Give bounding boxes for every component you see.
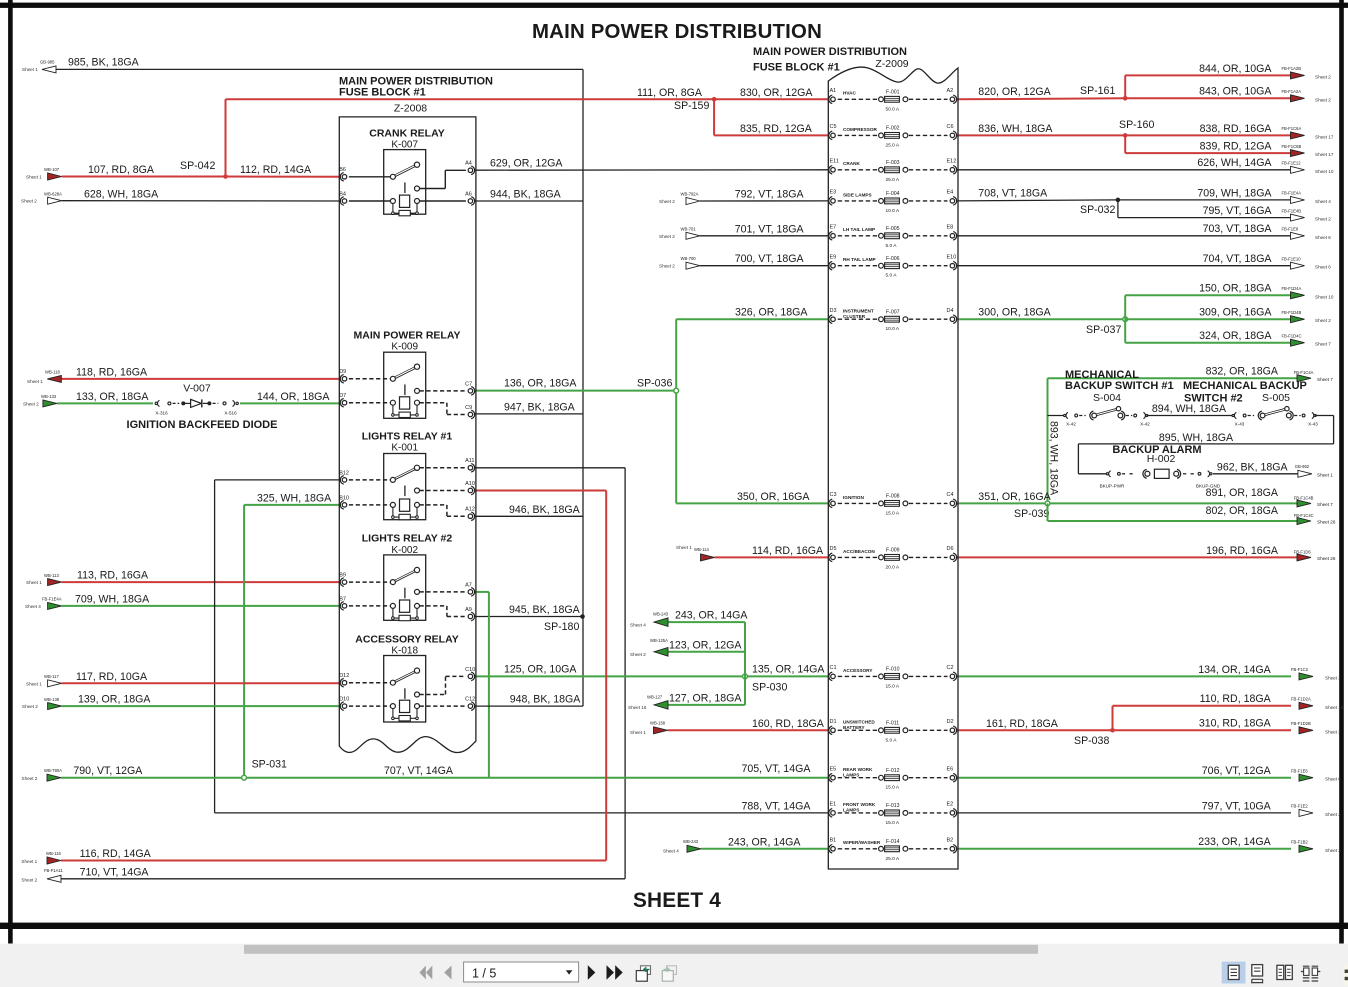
svg-text:E2: E2 — [947, 802, 954, 808]
svg-text:117, RD, 10GA: 117, RD, 10GA — [76, 671, 148, 683]
wire 134, OR, 14GA — [957, 664, 1291, 677]
svg-text:709, WH, 18GA: 709, WH, 18GA — [75, 593, 150, 605]
sheet arrow FB-F1A2A Sheet 2 — [1282, 89, 1332, 102]
svg-text:Z-2008: Z-2008 — [394, 103, 427, 115]
pin A10 — [468, 488, 473, 493]
pin B9 — [342, 580, 347, 585]
pin C9 — [468, 412, 473, 417]
svg-text:SP-039: SP-039 — [1014, 508, 1049, 520]
pin D7 — [342, 400, 347, 405]
svg-text:Sheet 10: Sheet 10 — [1315, 169, 1334, 174]
svg-text:F-009: F-009 — [886, 548, 900, 554]
wire 196, RD, 16GA — [957, 545, 1297, 558]
svg-text:E5: E5 — [830, 767, 837, 773]
page border frame bottom — [0, 923, 1348, 929]
svg-text:FB-F1C4C: FB-F1C4C — [1294, 513, 1314, 518]
wire A11 net right side — [475, 467, 625, 469]
svg-text:ACC/BEACON: ACC/BEACON — [843, 549, 875, 554]
wire 701, VT, 18GA — [700, 223, 829, 236]
pin B2 — [950, 847, 955, 852]
svg-text:A12: A12 — [465, 507, 475, 513]
wire 820, OR, 12GA — [957, 86, 1126, 100]
pin B10 — [342, 503, 347, 508]
svg-text:C1: C1 — [830, 665, 837, 671]
toolbar previous-view icon — [636, 966, 650, 981]
svg-text:Sheet 1: Sheet 1 — [630, 730, 646, 735]
svg-text:K-018: K-018 — [391, 646, 418, 657]
svg-text:LAMPS: LAMPS — [843, 773, 859, 778]
pin B1 — [831, 847, 836, 852]
pin E5 — [831, 775, 836, 780]
wire 144, OR, 18GA — [240, 391, 340, 403]
svg-text:FB-F1E4A: FB-F1E4A — [1282, 191, 1302, 196]
svg-text:10.0 A: 10.0 A — [886, 208, 900, 214]
sheet arrow FB-F1A11 Sheet 2 — [21, 868, 63, 882]
pin A4 — [468, 168, 473, 173]
svg-text:133, OR, 18GA: 133, OR, 18GA — [76, 391, 149, 403]
wire 844, OR, 10GA — [1125, 63, 1291, 99]
svg-text:710, VT, 14GA: 710, VT, 14GA — [80, 866, 150, 878]
svg-text:116, RD, 14GA: 116, RD, 14GA — [80, 848, 152, 860]
backup alarm H-002 — [1100, 444, 1221, 489]
wire 112, RD, 14GA — [226, 164, 342, 177]
svg-text:FB-F1D4C: FB-F1D4C — [1282, 334, 1302, 339]
svg-text:351, OR, 16GA: 351, OR, 16GA — [978, 491, 1051, 503]
svg-text:Sheet 2: Sheet 2 — [1325, 729, 1341, 734]
svg-text:CLUSTER: CLUSTER — [843, 314, 866, 319]
svg-text:160, RD, 18GA: 160, RD, 18GA — [752, 718, 825, 730]
page border frame right — [1339, 0, 1344, 944]
svg-text:WB-113: WB-113 — [44, 573, 59, 578]
wire 985, BK, 18GA — [56, 57, 584, 70]
svg-text:123, OR, 12GA: 123, OR, 12GA — [669, 639, 742, 651]
svg-text:C5: C5 — [830, 124, 837, 130]
svg-text:MAIN POWER DISTRIBUTION: MAIN POWER DISTRIBUTION — [753, 46, 907, 58]
svg-text:V-007: V-007 — [183, 382, 211, 394]
svg-text:20.0 A: 20.0 A — [886, 564, 900, 570]
svg-text:SP-031: SP-031 — [252, 758, 287, 770]
fuse F-013 FRONT WORK LAMPS — [829, 802, 957, 826]
pin D12 — [342, 680, 347, 685]
pin C2 — [950, 674, 955, 679]
sheet arrow WB-113 Sheet 1 — [26, 573, 62, 586]
svg-text:946, BK, 18GA: 946, BK, 18GA — [509, 504, 581, 516]
label Z-2009 block title — [753, 46, 909, 74]
svg-text:243, OR, 14GA: 243, OR, 14GA — [728, 836, 801, 848]
wire 350, OR, 16GA — [676, 491, 829, 503]
sheet arrow FB-F1E12 Sheet 10 — [1282, 161, 1334, 174]
svg-text:D3: D3 — [830, 308, 837, 314]
fuse F-006 RH TAIL LAMP — [829, 255, 957, 279]
wire 843, OR, 10GA — [1125, 86, 1291, 99]
pin A6 — [468, 199, 473, 204]
layout icon two pages — [1277, 965, 1292, 979]
wire 704, VT, 18GA — [957, 253, 1292, 266]
wire 838, RD, 16GA — [1125, 123, 1291, 136]
svg-text:FB-F1E2: FB-F1E2 — [1291, 804, 1308, 809]
svg-text:FB-F1E6: FB-F1E6 — [1291, 769, 1308, 774]
svg-text:C12: C12 — [465, 697, 475, 703]
pin E3 — [831, 199, 836, 204]
pin E7 — [831, 234, 836, 239]
svg-text:Sheet 2: Sheet 2 — [1315, 217, 1331, 222]
svg-text:A2: A2 — [947, 88, 954, 94]
svg-text:5.0 A: 5.0 A — [886, 243, 898, 249]
toolbar next-view icon (disabled) — [662, 966, 676, 981]
svg-text:SP-036: SP-036 — [637, 378, 672, 390]
toolbar last-page button — [607, 965, 623, 979]
wire 325, WH, 18GA — [244, 492, 341, 777]
svg-text:E12: E12 — [947, 159, 957, 165]
svg-text:FB-F1D2A: FB-F1D2A — [1291, 697, 1311, 702]
wire 945, BK, 18GA — [475, 604, 583, 617]
svg-text:WB-139: WB-139 — [44, 697, 60, 702]
svg-text:F-007: F-007 — [886, 309, 900, 315]
svg-text:985, BK, 18GA: 985, BK, 18GA — [68, 57, 140, 69]
pin C6 — [950, 133, 955, 138]
svg-text:Sheet 7: Sheet 7 — [1317, 502, 1333, 507]
toolbar previous-page button (disabled) — [444, 966, 451, 980]
label Z-2008 block title — [339, 76, 493, 115]
svg-text:797, VT, 10GA: 797, VT, 10GA — [1202, 800, 1272, 812]
svg-text:706, VT, 12GA: 706, VT, 12GA — [1202, 765, 1272, 777]
svg-text:Sheet 1: Sheet 1 — [26, 175, 42, 180]
svg-text:ACCESSORY RELAY: ACCESSORY RELAY — [355, 633, 458, 645]
wire 324, OR, 18GA — [1125, 319, 1291, 343]
svg-text:114, RD, 16GA: 114, RD, 16GA — [752, 545, 824, 557]
svg-text:A10: A10 — [465, 481, 475, 487]
svg-text:C2: C2 — [947, 665, 954, 671]
pin D9 — [342, 377, 347, 382]
pin A1 — [831, 97, 836, 102]
splice SP-036 vertical (OR) — [637, 319, 679, 503]
layout icon single page (active) — [1222, 962, 1246, 984]
svg-text:SP-042: SP-042 — [180, 160, 215, 172]
svg-text:ACCESSORY: ACCESSORY — [843, 668, 873, 673]
sheet arrow FB-F1D4A Sheet 10 — [1282, 286, 1334, 299]
svg-text:SP-032: SP-032 — [1080, 204, 1115, 216]
sheet arrow WB-243 Sheet 4 — [630, 612, 669, 628]
svg-text:WB-125A: WB-125A — [650, 638, 668, 643]
svg-text:Sheet 1: Sheet 1 — [676, 545, 692, 550]
diode V-007 IGNITION BACKFEED DIODE — [155, 382, 238, 415]
svg-text:Sheet 4: Sheet 4 — [1315, 199, 1331, 204]
svg-text:704, VT, 18GA: 704, VT, 18GA — [1203, 253, 1273, 265]
sheet arrow WB-139 Sheet 2 — [22, 697, 62, 710]
wire 309, OR, 16GA — [1125, 307, 1291, 320]
fuse block Z-2009 outline — [828, 67, 958, 869]
svg-text:BKUP-PWR: BKUP-PWR — [1100, 484, 1125, 489]
svg-text:WB-790A: WB-790A — [44, 768, 62, 773]
svg-text:WB-118: WB-118 — [45, 370, 60, 375]
svg-text:FB-F1E8: FB-F1E8 — [1282, 227, 1299, 232]
pin E11 — [831, 168, 836, 173]
svg-text:628, WH, 18GA: 628, WH, 18GA — [84, 189, 159, 201]
sheet arrow WB-158 Sheet 1 — [630, 721, 668, 735]
layout icon continuous — [1252, 965, 1263, 984]
svg-text:CRANK RELAY: CRANK RELAY — [369, 127, 444, 139]
sheet arrow FB-F1C4C Sheet 26 — [1294, 513, 1336, 525]
sheet arrow WB-127 Sheet 16 — [628, 694, 668, 710]
splice SP-159 — [674, 97, 716, 112]
svg-text:150, OR, 18GA: 150, OR, 18GA — [1199, 283, 1272, 295]
svg-text:C7: C7 — [465, 381, 472, 387]
pin E6 — [950, 775, 955, 780]
svg-text:E8: E8 — [947, 225, 954, 231]
wire 114, RD, 16GA — [715, 545, 830, 557]
pin E10 — [950, 263, 955, 268]
fuse F-014 WIPER/WASHER — [829, 838, 957, 862]
svg-text:C4: C4 — [947, 492, 954, 498]
sheet arrow GB-962 Sheet 1 — [1295, 464, 1334, 477]
svg-text:15.0 A: 15.0 A — [886, 683, 900, 689]
svg-text:SWITCH #2: SWITCH #2 — [1184, 393, 1243, 405]
svg-text:5.0 A: 5.0 A — [886, 737, 898, 743]
splice SP-039 — [1014, 501, 1050, 520]
wire 795, VT, 16GA — [1118, 200, 1292, 218]
splice SP-160 — [1119, 119, 1154, 138]
svg-text:SP-180: SP-180 — [544, 621, 579, 633]
ground bus wire (BK) — [582, 69, 584, 706]
svg-text:B4: B4 — [339, 191, 346, 197]
svg-text:795, VT, 16GA: 795, VT, 16GA — [1203, 205, 1273, 217]
wire 351, OR, 16GA / 891, OR, 18GA — [957, 487, 1297, 503]
relay K-009 MAIN POWER RELAY — [339, 329, 474, 418]
svg-text:25.0 A: 25.0 A — [886, 856, 900, 862]
svg-text:BACKUP SWITCH #1: BACKUP SWITCH #1 — [1065, 380, 1174, 392]
svg-text:F-003: F-003 — [886, 160, 900, 166]
sheet arrow FB-F1C4A Sheet 7 — [1294, 370, 1334, 382]
svg-text:WB-628A: WB-628A — [44, 191, 62, 196]
fuse F-007 INSTRUMENT CLUSTER — [829, 308, 957, 332]
svg-text:X-43: X-43 — [1235, 422, 1245, 427]
sheet arrow WB-114 Sheet 1 — [676, 545, 715, 561]
svg-text:944, BK, 18GA: 944, BK, 18GA — [490, 189, 562, 201]
svg-text:15.0 A: 15.0 A — [886, 510, 900, 516]
svg-text:FB-F1B2: FB-F1B2 — [1291, 840, 1308, 845]
wire 708, VT, 18GA — [957, 187, 1118, 201]
svg-text:WB-116: WB-116 — [46, 851, 61, 856]
svg-text:139, OR, 18GA: 139, OR, 18GA — [78, 694, 151, 706]
layout icon two pages continuous — [1301, 966, 1320, 981]
wire 626, WH, 14GA — [957, 157, 1292, 170]
svg-text:K-001: K-001 — [391, 443, 418, 454]
svg-text:FB-F1E4A: FB-F1E4A — [42, 597, 62, 602]
splice SP-031 — [242, 758, 287, 780]
sheet arrow FB-F1A2B Sheet 2 — [1282, 66, 1332, 79]
svg-text:BATTERY: BATTERY — [843, 725, 865, 730]
svg-text:Sheet 17: Sheet 17 — [1315, 152, 1334, 157]
svg-text:GB-985: GB-985 — [40, 60, 55, 65]
svg-text:LH TAIL LAMP: LH TAIL LAMP — [843, 227, 875, 232]
wire 233, OR, 14GA — [957, 836, 1291, 849]
svg-text:E3: E3 — [830, 190, 837, 196]
pin A7 — [468, 590, 473, 595]
wire 110, RD, 18GA — [1113, 693, 1292, 730]
wire 703, VT, 18GA — [957, 223, 1292, 236]
fuse F-001 HVAC — [829, 88, 957, 112]
pin B4 — [342, 199, 347, 204]
svg-text:50.0 A: 50.0 A — [886, 106, 900, 112]
wire 127, OR, 18GA — [667, 676, 745, 705]
svg-text:D12: D12 — [339, 673, 349, 679]
svg-text:A4: A4 — [465, 161, 472, 167]
wire 832, OR, 18GA — [1048, 366, 1298, 379]
svg-text:Sheet 1: Sheet 1 — [1317, 472, 1333, 477]
svg-text:A9: A9 — [465, 607, 472, 613]
svg-text:F-004: F-004 — [886, 191, 900, 197]
fuse F-005 LH TAIL LAMP — [829, 225, 957, 249]
svg-text:Sheet 2: Sheet 2 — [1325, 812, 1341, 817]
wire 944, BK, 18GA — [475, 189, 583, 202]
wire 788, VT, 14GA — [215, 800, 829, 813]
svg-text:Sheet 6: Sheet 6 — [1315, 235, 1331, 240]
wire 946, BK, 18GA — [475, 504, 583, 517]
svg-text:GB-962: GB-962 — [1295, 464, 1310, 469]
svg-text:B7: B7 — [339, 596, 346, 602]
svg-text:WB-127: WB-127 — [647, 694, 663, 699]
svg-text:Sheet 2: Sheet 2 — [1315, 74, 1331, 79]
svg-text:COMPRESSOR: COMPRESSOR — [843, 127, 877, 132]
svg-text:196, RD, 16GA: 196, RD, 16GA — [1206, 545, 1279, 557]
wire 893, WH, 18GA (vertical) — [1048, 378, 1060, 521]
svg-text:D1: D1 — [830, 719, 837, 725]
svg-text:707, VT, 14GA: 707, VT, 14GA — [384, 765, 454, 777]
splice SP-042 — [180, 160, 228, 179]
svg-text:SP-161: SP-161 — [1080, 85, 1115, 97]
svg-text:Sheet 2: Sheet 2 — [1325, 848, 1341, 853]
sheet arrow WB-133 Sheet 2 — [23, 394, 57, 407]
toolbar first-page button (disabled) — [420, 966, 433, 980]
pin D5 — [831, 555, 836, 560]
wire 709, WH, 18GA (left) — [62, 593, 341, 606]
svg-text:144, OR, 18GA: 144, OR, 18GA — [257, 391, 330, 403]
svg-text:C6: C6 — [947, 124, 954, 130]
svg-text:WB-114: WB-114 — [694, 547, 709, 552]
pin C7 — [468, 389, 473, 394]
svg-text:Sheet 1: Sheet 1 — [26, 681, 42, 686]
pin C12 — [468, 704, 473, 709]
svg-text:350, OR, 16GA: 350, OR, 16GA — [737, 491, 810, 503]
svg-text:118, RD, 16GA: 118, RD, 16GA — [76, 367, 148, 379]
sheet arrow WB-116 Sheet 1 — [21, 851, 61, 864]
svg-text:1 / 5: 1 / 5 — [472, 966, 496, 980]
svg-text:HVAC: HVAC — [843, 91, 857, 96]
sheet arrow WB-107 Sheet 1 — [26, 167, 62, 180]
pin B6 — [342, 175, 347, 180]
relay K-007 CRANK RELAY — [339, 127, 474, 215]
svg-text:Sheet 2: Sheet 2 — [659, 199, 675, 204]
svg-text:S-004: S-004 — [1093, 392, 1121, 404]
svg-text:WB-700: WB-700 — [681, 256, 697, 261]
svg-text:Sheet 2: Sheet 2 — [22, 776, 38, 781]
svg-text:894, WH, 18GA: 894, WH, 18GA — [1152, 403, 1227, 415]
svg-text:Sheet 1: Sheet 1 — [27, 379, 43, 384]
svg-text:INSTRUMENT: INSTRUMENT — [843, 309, 874, 314]
svg-text:107, RD, 8GA: 107, RD, 8GA — [88, 164, 155, 176]
svg-text:WB-792A: WB-792A — [681, 192, 699, 197]
pin C4 — [950, 501, 955, 506]
svg-text:FB-F1C6A: FB-F1C6A — [1282, 126, 1302, 131]
sheet arrow FB-F1B2 Sheet 2 — [1291, 840, 1341, 853]
svg-text:FB-F1A2A: FB-F1A2A — [1282, 89, 1302, 94]
svg-text:REAR WORK: REAR WORK — [843, 767, 873, 772]
svg-text:836, WH, 18GA: 836, WH, 18GA — [978, 123, 1053, 135]
svg-text:Sheet 2: Sheet 2 — [659, 264, 675, 269]
svg-text:626, WH, 14GA: 626, WH, 14GA — [1197, 157, 1272, 169]
wire 894, WH, 18GA — [1147, 403, 1233, 415]
svg-text:IGNITION: IGNITION — [843, 495, 864, 500]
svg-text:E6: E6 — [947, 767, 954, 773]
svg-text:SIDE LAMPS: SIDE LAMPS — [843, 192, 872, 197]
relay K-001 LIGHTS RELAY #1 — [339, 431, 475, 521]
svg-text:F-012: F-012 — [886, 768, 900, 774]
svg-text:947, BK, 18GA: 947, BK, 18GA — [504, 401, 576, 413]
svg-text:Sheet 4: Sheet 4 — [663, 849, 679, 854]
svg-text:B10: B10 — [339, 495, 349, 501]
svg-text:SP-159: SP-159 — [674, 100, 709, 112]
svg-text:K-002: K-002 — [391, 545, 418, 556]
svg-text:110, RD, 18GA: 110, RD, 18GA — [1200, 693, 1272, 705]
partial icon at right edge — [1344, 965, 1348, 986]
pin C10 — [468, 674, 473, 679]
svg-text:D4: D4 — [947, 308, 954, 314]
svg-text:FB-F1A2B: FB-F1A2B — [1282, 66, 1302, 71]
svg-text:Sheet 6: Sheet 6 — [1325, 777, 1341, 782]
svg-text:843, OR, 10GA: 843, OR, 10GA — [1199, 86, 1272, 98]
sheet arrow WB-118 Sheet 1 — [27, 370, 61, 384]
svg-text:CRANK: CRANK — [843, 161, 861, 166]
svg-text:701, VT, 18GA: 701, VT, 18GA — [735, 223, 805, 235]
svg-text:WB-133: WB-133 — [41, 394, 57, 399]
svg-text:Sheet 2: Sheet 2 — [1325, 675, 1341, 680]
sheet arrow FB-F1D4B Sheet 2 — [1282, 310, 1332, 323]
svg-text:Sheet 4: Sheet 4 — [25, 604, 41, 609]
svg-text:D5: D5 — [830, 546, 837, 552]
svg-text:D9: D9 — [339, 369, 346, 375]
fuse F-009 ACC/BEACON — [829, 546, 957, 570]
sheet arrow WB-243 Sheet 4 (wiper) — [663, 839, 701, 853]
svg-text:F-011: F-011 — [886, 721, 899, 727]
pin D6 — [950, 555, 955, 560]
pin A2 — [950, 97, 955, 102]
pin D3 — [831, 317, 836, 322]
fuse F-010 ACCESSORY — [829, 665, 957, 689]
pin D10 — [342, 704, 347, 709]
svg-text:F-008: F-008 — [886, 494, 900, 500]
svg-text:FB-F1D6: FB-F1D6 — [1294, 549, 1312, 554]
svg-text:Sheet 10: Sheet 10 — [1325, 705, 1344, 710]
svg-text:300, OR, 18GA: 300, OR, 18GA — [978, 307, 1051, 319]
fuse F-002 COMPRESSOR — [829, 124, 957, 148]
svg-text:708, VT, 18GA: 708, VT, 18GA — [978, 187, 1048, 199]
svg-text:X-43: X-43 — [1308, 422, 1318, 427]
svg-text:C10: C10 — [465, 667, 475, 673]
viewer toolbar background — [0, 944, 1348, 987]
svg-text:B2: B2 — [947, 838, 954, 844]
fuse F-011 UNSWITCHED BATTERY — [829, 719, 957, 743]
wire 125, OR, 10GA / 135, OR, 14GA — [475, 664, 829, 677]
svg-text:113, RD, 16GA: 113, RD, 16GA — [77, 570, 149, 582]
pin E1 — [831, 811, 836, 816]
svg-text:S-005: S-005 — [1262, 392, 1290, 404]
wire 836, WH, 18GA — [957, 123, 1126, 136]
wire 243, OR, 14GA (wiper) — [701, 836, 829, 849]
svg-text:629, OR, 12GA: 629, OR, 12GA — [490, 158, 563, 170]
wire 123, OR, 12GA — [667, 639, 745, 652]
svg-text:FB-F1A11: FB-F1A11 — [44, 868, 63, 873]
svg-text:MAIN POWER DISTRIBUTION: MAIN POWER DISTRIBUTION — [532, 21, 822, 43]
